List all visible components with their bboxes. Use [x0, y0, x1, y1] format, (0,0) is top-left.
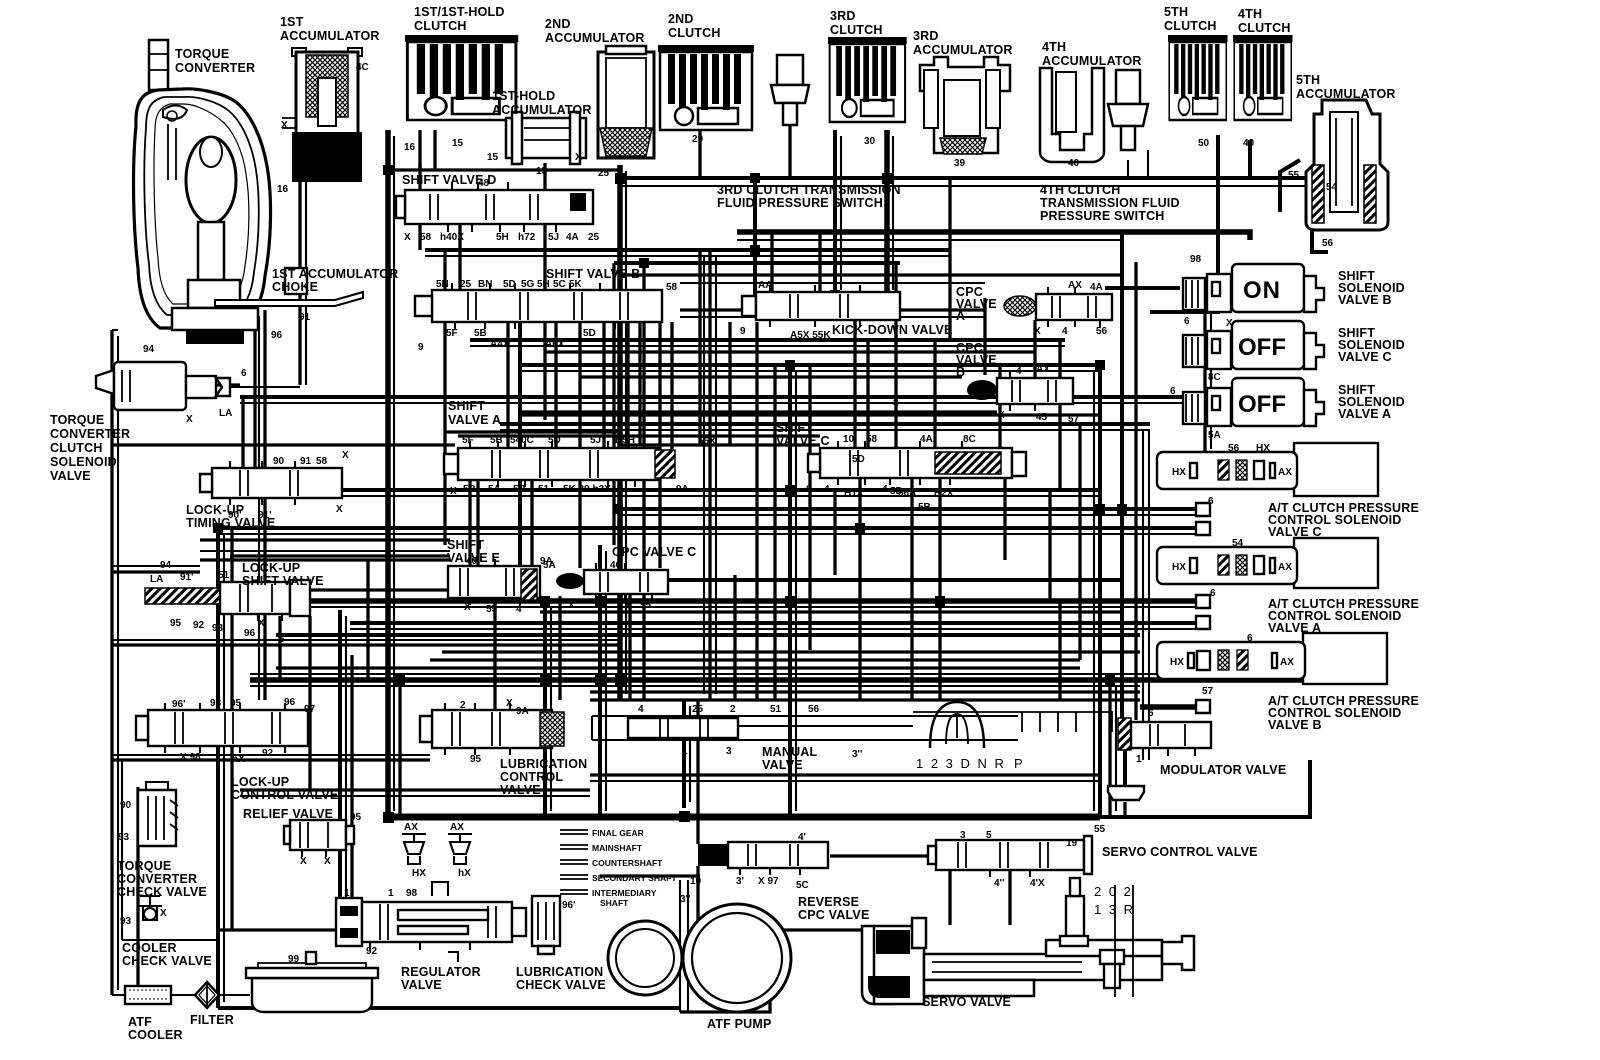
wire x1035 — [1033, 320, 1036, 378]
svg-text:6: 6 — [1247, 633, 1253, 644]
svg-text:4TH: 4TH — [1238, 7, 1262, 21]
wire x698 — [696, 700, 699, 844]
svg-text:40: 40 — [1068, 158, 1080, 169]
1st accumulator choke — [215, 268, 363, 306]
svg-text:51: 51 — [218, 570, 230, 581]
lock-up timing valve — [200, 461, 342, 505]
svg-text:BN: BN — [478, 279, 492, 290]
wire reverse cpc to servo — [698, 866, 862, 930]
svg-text:X: X — [281, 120, 288, 131]
pipe pair x551 — [550, 606, 552, 811]
svg-text:CONTROL VALVE: CONTROL VALVE — [231, 788, 338, 802]
pipe pair y629 — [350, 628, 1196, 630]
svg-text:57: 57 — [1068, 414, 1080, 425]
svg-text:56: 56 — [1322, 238, 1334, 249]
svg-text:5TH: 5TH — [1164, 5, 1188, 19]
svg-text:95: 95 — [350, 812, 362, 823]
wire y250 run — [425, 248, 950, 252]
lock-up control valve — [136, 703, 308, 753]
wire x860 low — [858, 478, 861, 700]
kick-down valve — [742, 285, 900, 327]
svg-text:5B: 5B — [918, 502, 931, 513]
AX check valve symbol 2 — [448, 822, 472, 879]
svg-text:96: 96 — [244, 628, 256, 639]
wire x243 — [241, 397, 244, 468]
svg-text:91: 91 — [300, 456, 312, 467]
wire x855 — [853, 295, 856, 455]
svg-text:ACCUMULATOR: ACCUMULATOR — [913, 43, 1013, 57]
svg-text:4: 4 — [1016, 366, 1022, 377]
svg-text:INTERMEDIARY: INTERMEDIARY — [592, 888, 657, 898]
svg-text:5B: 5B — [490, 435, 503, 446]
svg-text:56: 56 — [808, 704, 820, 715]
svg-text:56X: 56X — [698, 436, 716, 447]
relief valve — [284, 820, 354, 857]
torque converter — [134, 40, 271, 344]
shift solenoid valve C (OFF) — [1183, 321, 1324, 369]
svg-text:X: X — [336, 504, 343, 515]
pipe pair y317 — [680, 316, 985, 318]
svg-text:90: 90 — [273, 456, 285, 467]
svg-text:6: 6 — [279, 634, 285, 645]
svg-text:5K: 5K — [569, 279, 583, 290]
wire x1122 — [1120, 232, 1124, 720]
pipe pair y607 — [230, 606, 1196, 608]
svg-text:X: X — [186, 414, 193, 425]
svg-text:4'': 4'' — [994, 878, 1004, 889]
pipe pair x841 — [840, 136, 842, 290]
wire x1136 — [1134, 262, 1137, 720]
wire x912 — [910, 478, 913, 700]
svg-text:39: 39 — [954, 158, 966, 169]
svg-text:1: 1 — [388, 888, 394, 899]
wire x352 — [350, 655, 353, 930]
wire x1060 low — [1058, 601, 1061, 700]
svg-text:4TH: 4TH — [1042, 40, 1066, 54]
wire x580 — [578, 322, 581, 568]
wire x896 — [894, 263, 897, 455]
shift solenoid valve B (ON) — [1183, 264, 1324, 312]
svg-text:COOLER: COOLER — [122, 941, 177, 955]
wire x495 low — [493, 598, 496, 710]
wire x400 — [398, 680, 401, 817]
wire x735 — [733, 575, 736, 700]
wire x545 low — [543, 600, 547, 817]
svg-text:FINAL GEAR: FINAL GEAR — [592, 828, 644, 838]
wire x478 low — [476, 480, 479, 566]
pipe pair x394 — [393, 136, 395, 811]
svg-text:3RD CLUTCH TRANSMISSION: 3RD CLUTCH TRANSMISSION — [717, 183, 901, 197]
wire y397 run — [240, 395, 1205, 399]
pipe pair y781 — [590, 780, 1100, 782]
svg-text:2ND: 2ND — [545, 17, 571, 31]
svg-text:93: 93 — [120, 916, 132, 927]
wire manual valve top y700 — [590, 698, 1140, 701]
svg-text:X: X — [624, 600, 631, 611]
svg-text:5D: 5D — [503, 279, 516, 290]
wire x810 — [808, 365, 811, 650]
shift valve D — [396, 182, 593, 232]
pipe pair y283 — [680, 282, 985, 284]
pipe pair y686 — [250, 685, 1140, 687]
wire x1110 — [1108, 680, 1111, 817]
svg-text:5J: 5J — [548, 232, 559, 243]
svg-text:RELIEF VALVE: RELIEF VALVE — [243, 807, 333, 821]
svg-text:AA: AA — [758, 280, 772, 291]
wire y263 run — [614, 261, 900, 265]
svg-text:4: 4 — [638, 704, 644, 715]
wire x935 — [933, 340, 936, 455]
wire x700 mid — [698, 250, 701, 445]
svg-text:5B: 5B — [463, 484, 476, 495]
pipe pair x1116 — [1115, 686, 1117, 811]
wire y509 module C feed — [620, 507, 1196, 511]
svg-text:5A: 5A — [543, 560, 556, 571]
wire y760 left — [112, 758, 430, 761]
svg-text:96: 96 — [284, 697, 296, 708]
pipe pair x259 — [258, 316, 260, 700]
svg-text:55: 55 — [486, 604, 498, 615]
wire y560 lockup top — [200, 558, 450, 561]
svg-text:94: 94 — [160, 560, 172, 571]
svg-text:AX: AX — [1278, 467, 1292, 478]
shift solenoid valve A (OFF) — [1183, 378, 1324, 426]
svg-text:4: 4 — [824, 484, 830, 495]
svg-text:5K 39 h3X: 5K 39 h3X — [563, 484, 611, 495]
svg-text:4: 4 — [882, 484, 888, 495]
svg-text:REVERSE: REVERSE — [798, 895, 859, 909]
wire x1270 bottom — [1248, 160, 1251, 178]
svg-text:1 2 3 D N R: 1 2 3 D N R — [916, 756, 1006, 771]
svg-text:H2X: H2X — [934, 488, 954, 499]
svg-text:5G: 5G — [521, 279, 535, 290]
wire y275 run — [620, 273, 1122, 276]
wire x950 servo drop — [948, 870, 951, 925]
connector B1 — [1196, 700, 1210, 713]
svg-text:5H: 5H — [537, 279, 550, 290]
wire x1000 — [998, 365, 1001, 455]
shift valve E — [448, 559, 540, 605]
svg-text:SERVO VALVE: SERVO VALVE — [922, 995, 1011, 1009]
pipe pair y640 — [112, 639, 620, 641]
svg-text:SERVO CONTROL VALVE: SERVO CONTROL VALVE — [1102, 845, 1258, 859]
svg-text:HX: HX — [1172, 562, 1186, 573]
wire y680 run — [250, 677, 1312, 683]
1st-hold accumulator — [506, 112, 586, 164]
shift valve A — [444, 441, 675, 487]
svg-text:X: X — [300, 856, 307, 867]
wire y490 run — [250, 488, 1100, 492]
svg-text:VALVE B: VALVE B — [1268, 718, 1322, 732]
svg-text:AX: AX — [1068, 280, 1082, 291]
svg-text:ON: ON — [1243, 277, 1281, 304]
svg-text:55: 55 — [1288, 170, 1300, 181]
lock-up shift valve — [145, 580, 310, 621]
modulator dish — [1108, 786, 1144, 800]
svg-text:5A: 5A — [1208, 430, 1221, 441]
servo valve — [862, 878, 1194, 1004]
svg-text:VALVE: VALVE — [50, 469, 91, 483]
connector A1 — [1196, 595, 1210, 608]
svg-text:LA: LA — [150, 574, 163, 585]
svg-text:6: 6 — [241, 368, 247, 379]
wire x790 — [788, 365, 792, 817]
svg-text:AX: AX — [450, 822, 464, 833]
svg-text:MODULATOR VALVE: MODULATOR VALVE — [1160, 763, 1286, 777]
svg-text:X: X — [506, 698, 513, 709]
wire y790 run — [240, 788, 590, 791]
1st accumulator — [282, 48, 362, 182]
svg-text:X: X — [575, 152, 582, 163]
wire y692 run — [590, 690, 1140, 693]
svg-text:9A: 9A — [516, 706, 529, 717]
wire 4th-accum drop — [1147, 150, 1149, 178]
manual valve — [592, 702, 1113, 748]
3rd accumulator — [920, 57, 1010, 154]
svg-text:CPC VALVE C: CPC VALVE C — [612, 545, 696, 559]
pipe pair x346 — [345, 616, 347, 930]
svg-text:X 97: X 97 — [758, 876, 779, 887]
wire y775 run — [590, 773, 1100, 776]
svg-text:93: 93 — [118, 832, 130, 843]
3rd clutch — [828, 37, 907, 122]
svg-text:COOLER: COOLER — [128, 1028, 183, 1042]
svg-text:5B: 5B — [474, 328, 487, 339]
wire y590 mid — [310, 588, 448, 591]
pipe pair x1205b — [1210, 294, 1212, 449]
wire x470 low — [468, 480, 471, 566]
A/T clutch pressure control solenoid valve B — [1157, 633, 1387, 684]
svg-text:19: 19 — [1066, 838, 1078, 849]
svg-text:P: P — [1014, 756, 1025, 771]
svg-text:51: 51 — [538, 484, 550, 495]
svg-text:5D: 5D — [852, 454, 865, 465]
wire x556 — [554, 322, 557, 448]
svg-text:15: 15 — [487, 152, 499, 163]
wire x790 switch drop — [788, 139, 791, 178]
svg-text:5A: 5A — [488, 484, 501, 495]
ATF cooler — [125, 986, 171, 1004]
svg-text:N5H: N5H — [615, 435, 635, 446]
pipe pair x690 — [689, 706, 691, 802]
wire 4th-switch drop — [1127, 160, 1129, 178]
svg-text:VALVE: VALVE — [762, 758, 803, 772]
svg-text:CHECK VALVE: CHECK VALVE — [516, 978, 606, 992]
svg-text:9: 9 — [418, 342, 424, 353]
wire left loop x122 — [122, 760, 218, 940]
svg-text:15: 15 — [452, 138, 464, 149]
svg-text:58: 58 — [316, 456, 328, 467]
svg-text:25: 25 — [588, 232, 600, 243]
svg-text:SHIFT VALVE: SHIFT VALVE — [242, 574, 324, 588]
svg-text:5D: 5D — [890, 486, 903, 497]
wire top bus y178 — [620, 176, 1312, 180]
wire 3rd-clutch drop — [884, 130, 890, 298]
svg-text:LUBRICATION: LUBRICATION — [516, 965, 603, 979]
pipe pair y534 — [220, 533, 1196, 535]
pipe pair x716 — [715, 256, 717, 694]
svg-text:98: 98 — [406, 888, 418, 899]
svg-text:HX: HX — [1256, 443, 1270, 454]
svg-text:ACCUMULATOR: ACCUMULATOR — [280, 29, 380, 43]
svg-text:51: 51 — [770, 704, 782, 715]
svg-text:3'': 3'' — [680, 894, 690, 905]
wire x532 low — [530, 480, 533, 566]
svg-text:55: 55 — [1094, 824, 1106, 835]
svg-text:4TH CLUTCH: 4TH CLUTCH — [1040, 183, 1120, 197]
wire bottom long y1008 — [218, 1006, 680, 1010]
svg-text:1: 1 — [1136, 754, 1142, 765]
svg-text:58: 58 — [866, 434, 878, 445]
svg-text:AX: AX — [1036, 364, 1050, 375]
svg-text:CONVERTER: CONVERTER — [117, 872, 197, 886]
svg-text:93: 93 — [212, 623, 224, 634]
lubrication check valve — [532, 896, 560, 954]
wire y601 module A feed — [230, 598, 1196, 604]
wire x420 — [418, 163, 421, 250]
wire x255 — [253, 310, 256, 468]
svg-text:4A: 4A — [566, 232, 579, 243]
svg-text:95: 95 — [470, 754, 482, 765]
torque converter check valve — [138, 782, 178, 846]
ATF pump — [608, 904, 791, 1012]
wire y385 left TC solenoid — [112, 383, 240, 386]
svg-text:30: 30 — [864, 136, 876, 147]
svg-text:10: 10 — [690, 876, 702, 887]
wire x265 — [263, 310, 266, 700]
svg-text:45: 45 — [1036, 412, 1048, 423]
svg-text:5H: 5H — [496, 232, 509, 243]
junction dots 2 — [395, 173, 1115, 685]
svg-text:4C: 4C — [356, 62, 369, 73]
pipe pair y515 — [620, 514, 1196, 516]
svg-text:CLUTCH: CLUTCH — [414, 19, 467, 33]
svg-text:VALVE A: VALVE A — [1338, 407, 1391, 421]
pipe pair x606 — [605, 551, 607, 811]
wire 2nd-accum drop — [617, 165, 623, 700]
wire 1st-accum drop x388 — [385, 130, 391, 817]
shift valve B — [415, 283, 662, 329]
svg-text:CLUTCH: CLUTCH — [1238, 21, 1291, 35]
wire x1005 low — [1003, 478, 1006, 560]
wire 4th-clutch drop — [1248, 140, 1252, 178]
svg-text:96: 96 — [271, 330, 283, 341]
svg-text:3RD: 3RD — [913, 29, 939, 43]
wire y635 run — [276, 633, 1140, 637]
wire x868 — [866, 340, 869, 448]
pipe pair y256 — [425, 255, 950, 257]
4th clutch pressure switch — [1108, 70, 1148, 150]
wire x300 — [298, 155, 301, 385]
svg-text:SOLENOID: SOLENOID — [50, 455, 117, 469]
wire x630 low — [628, 594, 631, 700]
svg-text:REGULATOR: REGULATOR — [401, 965, 481, 979]
wire y415 run — [520, 413, 1100, 416]
5th clutch — [1168, 35, 1228, 120]
wire x368 — [366, 560, 369, 680]
svg-text:95: 95 — [230, 698, 242, 709]
shift valve C — [808, 441, 1026, 485]
svg-text:LOCK-UP: LOCK-UP — [231, 775, 289, 789]
wire x730 — [728, 322, 731, 445]
wire top bus left y170 — [390, 168, 622, 171]
pipe pair x796 — [795, 371, 797, 811]
wire left margin x112 — [110, 330, 113, 995]
wire x614 — [612, 263, 615, 545]
wire x628 — [626, 322, 629, 448]
svg-text:98: 98 — [1190, 254, 1202, 265]
svg-text:CHECK VALVE: CHECK VALVE — [122, 954, 212, 968]
svg-text:4': 4' — [798, 832, 806, 843]
svg-text:X: X — [258, 618, 265, 629]
wire bottom right y1012 — [680, 940, 770, 1012]
wire y352 run — [545, 350, 1035, 353]
wire x660 — [658, 322, 661, 568]
wire y817 right ext — [1100, 760, 1310, 817]
wire y572 left — [112, 570, 200, 573]
wire x508 — [506, 322, 509, 448]
wire x835 low — [833, 490, 836, 575]
svg-text:LOCK-UP: LOCK-UP — [242, 561, 300, 575]
svg-text:96': 96' — [172, 699, 186, 710]
wire y540 run — [200, 538, 450, 541]
svg-text:VALVE B: VALVE B — [1338, 293, 1392, 307]
wire y445 mid — [620, 443, 820, 446]
svg-text:40: 40 — [1243, 138, 1255, 149]
svg-text:ACCUMULATOR: ACCUMULATOR — [492, 103, 592, 117]
A/T clutch pressure control solenoid valve C — [1157, 443, 1378, 496]
svg-text:1ST-HOLD: 1ST-HOLD — [492, 89, 555, 103]
svg-text:5J: 5J — [590, 435, 601, 446]
wire x560 — [558, 596, 561, 700]
svg-text:X: X — [568, 600, 575, 611]
svg-text:5B: 5B — [513, 484, 526, 495]
wire y940 — [112, 329, 118, 331]
svg-text:h40X: h40X — [440, 232, 464, 243]
wire x1050 low — [1048, 490, 1051, 601]
svg-text:5TH: 5TH — [1296, 73, 1320, 87]
svg-text:VALVE C: VALVE C — [776, 434, 830, 448]
svg-text:CLUTCH: CLUTCH — [668, 26, 721, 40]
svg-text:5F: 5F — [462, 435, 474, 446]
svg-text:25: 25 — [460, 279, 472, 290]
svg-text:99: 99 — [288, 954, 300, 965]
svg-text:A6X: A6X — [545, 339, 565, 350]
svg-text:8C: 8C — [963, 434, 976, 445]
svg-text:4A: 4A — [920, 434, 933, 445]
wire 5th-accum elbow — [1312, 176, 1328, 252]
svg-text:SHIFT: SHIFT — [448, 399, 485, 413]
svg-text:9: 9 — [740, 326, 746, 337]
svg-text:X 98: X 98 — [180, 752, 201, 763]
svg-text:PRESSURE SWITCH: PRESSURE SWITCH — [1040, 209, 1165, 223]
svg-text:1ST: 1ST — [280, 15, 304, 29]
svg-text:1: 1 — [682, 746, 688, 757]
wire y668 run — [276, 666, 1080, 669]
wire x775 low — [773, 365, 776, 700]
svg-text:FLUID PRESSURE SWITCH: FLUID PRESSURE SWITCH — [717, 196, 883, 210]
wire x700 2nd clutch drop — [698, 130, 701, 178]
svg-text:TORQUE: TORQUE — [50, 413, 104, 427]
wire x138 — [136, 787, 139, 995]
svg-text:8C: 8C — [1208, 372, 1221, 383]
3rd clutch pressure switch — [771, 55, 809, 139]
pipe pair x1094 — [1093, 371, 1095, 811]
svg-text:1: 1 — [344, 888, 350, 899]
pipe pair y674 — [250, 673, 1312, 675]
wire ON solenoid feed y288 — [1105, 286, 1180, 290]
wire y445 left — [112, 443, 455, 446]
